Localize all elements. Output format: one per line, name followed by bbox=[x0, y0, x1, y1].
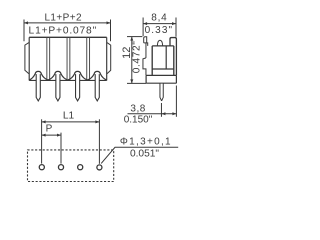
side view: inner contact box bbox=[165, 46, 167, 69]
dimension 12 / 0.472" (height, side view) bbox=[127, 37, 146, 84]
side view: top-left latch tab bbox=[144, 37, 148, 46]
svg-text:L1+P+0.078": L1+P+0.078" bbox=[29, 25, 98, 36]
pole divider 3 bbox=[87, 37, 90, 80]
svg-text:P: P bbox=[46, 124, 53, 135]
side view: left column outer edge bbox=[145, 43, 147, 58]
PCB layout: dashed board outline bbox=[28, 150, 114, 182]
PCB layout: hole 1 bbox=[39, 165, 44, 170]
arch cutout pole 3 bbox=[68, 71, 88, 80]
side view: base block bbox=[146, 75, 176, 83]
leader line for hole diameter bbox=[101, 147, 178, 163]
side view: latch dome on top bbox=[157, 40, 162, 46]
side view: solder pin bbox=[160, 83, 163, 101]
solder pin 4 (front view) bbox=[95, 74, 99, 101]
side view: cavity right wall bbox=[173, 46, 175, 75]
pole divider 1 bbox=[47, 37, 50, 80]
side view: 8,4 dimension extension lines + line bbox=[143, 18, 176, 37]
svg-text:0.051": 0.051" bbox=[130, 148, 159, 159]
svg-text:Φ1,3+0,1: Φ1,3+0,1 bbox=[120, 137, 172, 148]
svg-text:3,8: 3,8 bbox=[130, 104, 145, 115]
svg-text:0.472": 0.472" bbox=[131, 41, 142, 74]
dimension L1+P+2 / L1+P+0.078" (overall width, front view) bbox=[24, 20, 111, 42]
right latch tab (front view) bbox=[107, 43, 111, 74]
arch cutout pole 2 bbox=[48, 71, 68, 80]
solder pin 3 (front view) bbox=[76, 74, 80, 101]
dimension L1 (hole 1 to hole 4) bbox=[42, 119, 100, 164]
solder pin 1 (front view) bbox=[36, 74, 40, 101]
side view: cavity left wall bbox=[151, 46, 153, 75]
svg-text:L1: L1 bbox=[63, 111, 75, 122]
dimension 3,8 / 0.150" (side view, pin to face) bbox=[128, 86, 177, 117]
side view: cavity channel bottom bbox=[152, 68, 174, 70]
front view housing bbox=[29, 37, 107, 80]
svg-text:L1+P+2: L1+P+2 bbox=[44, 13, 81, 24]
arch cutout pole 1 bbox=[29, 71, 48, 80]
svg-text:8,4: 8,4 bbox=[151, 13, 167, 24]
side view: left protrusion bbox=[143, 58, 146, 75]
svg-text:0.33": 0.33" bbox=[145, 25, 174, 36]
side view: rim top edge bbox=[152, 45, 174, 47]
arch cutout pole 4 bbox=[87, 71, 106, 80]
left latch tab (front view) bbox=[25, 43, 29, 74]
PCB layout: hole 3 bbox=[78, 165, 83, 170]
solder pin 2 (front view) bbox=[56, 74, 60, 101]
svg-text:0.150": 0.150" bbox=[124, 115, 153, 126]
PCB layout: hole 2 bbox=[58, 165, 63, 170]
pole divider 2 bbox=[67, 37, 70, 80]
dimension P (hole 1 to hole 2, pitch) bbox=[42, 133, 61, 164]
side view: right column bbox=[170, 38, 176, 76]
PCB layout: hole 4 bbox=[97, 165, 102, 170]
